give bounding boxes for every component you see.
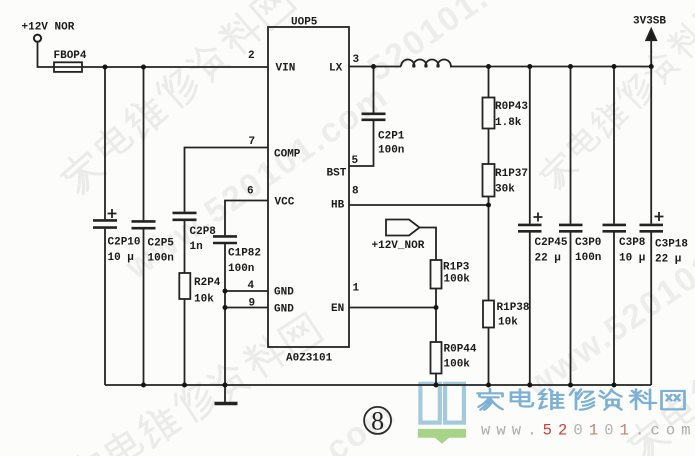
svg-text:R0P43: R0P43 [495, 101, 528, 113]
svg-text:7: 7 [249, 136, 256, 148]
wire C2P10 branch [104, 67, 106, 385]
resistor R0P44 [431, 342, 442, 374]
wire inductor to 3V3SB rail [450, 66, 651, 68]
net tag +12V_NOR [386, 220, 420, 236]
svg-text:C2P5: C2P5 [148, 238, 175, 250]
ground bus wire [105, 384, 651, 386]
svg-text:100n: 100n [148, 253, 174, 265]
inductor L [401, 59, 451, 66]
wire C3P18 branch [650, 67, 652, 386]
wire LX to C2P1 [373, 67, 375, 113]
fuse FBOP4 [54, 62, 82, 72]
svg-text:100k: 100k [444, 274, 471, 286]
wire R0P44 to bus [435, 374, 437, 386]
node VIN/C2P5 [141, 65, 146, 70]
svg-text:C2P10: C2P10 [108, 237, 141, 249]
svg-text:3: 3 [353, 54, 360, 66]
svg-text:9: 9 [249, 298, 256, 310]
svg-text:VIN: VIN [276, 63, 296, 75]
svg-text:C2P45: C2P45 [535, 237, 568, 249]
wire R0P43 to R1P37 [488, 129, 490, 165]
wire EN pin 1 [349, 307, 436, 309]
wire EN node to R0P44 [435, 308, 437, 343]
svg-text:100n: 100n [378, 145, 404, 157]
svg-text:3V3SB: 3V3SB [633, 16, 666, 28]
svg-text:4: 4 [248, 280, 255, 292]
ground symbol [215, 385, 238, 404]
svg-text:2: 2 [248, 50, 255, 62]
svg-text:EN: EN [331, 303, 344, 315]
wire R1P3 to EN node [435, 289, 437, 308]
svg-text:+12V_NOR: +12V_NOR [372, 240, 425, 252]
svg-text:UOP5: UOP5 [291, 17, 318, 29]
svg-text:R1P3: R1P3 [443, 262, 470, 274]
svg-text:C2P8: C2P8 [190, 226, 217, 238]
wire R1P38 to bus [488, 328, 490, 386]
svg-text:10 μ: 10 μ [108, 252, 134, 264]
svg-text:C3P0: C3P0 [575, 237, 601, 249]
svg-text:HB: HB [331, 200, 345, 212]
svg-text:1n: 1n [190, 241, 203, 253]
node bus/C2P45 [527, 383, 532, 388]
node rail/C3P0 [568, 64, 573, 69]
node GND pin4 [223, 289, 228, 294]
node rail/C3P18 [649, 64, 654, 69]
svg-text:FBOP4: FBOP4 [54, 50, 87, 62]
wire C1P82 to GND pins and bus [224, 244, 226, 385]
wire C2P1 to BST pin 5 [349, 121, 374, 166]
wire R1P37 to HB node [488, 197, 490, 206]
wire C2P5 branch [143, 67, 145, 385]
svg-text:R0P44: R0P44 [444, 344, 477, 356]
wire GND pin 4 [225, 290, 268, 292]
capacitor C2P10 [93, 209, 117, 228]
wire R2P4 to ground bus [184, 299, 186, 385]
svg-text:C2P1: C2P1 [378, 131, 405, 143]
logo url [481, 422, 695, 440]
node GND pin9 [223, 305, 228, 310]
wire COMP pin 7 [185, 148, 269, 212]
wire C2P8 to R2P4 [184, 221, 186, 273]
node HB/R1P37/R1P38 [486, 203, 491, 208]
3V3SB arrow [646, 29, 656, 67]
node rail/C2P45 [527, 64, 532, 69]
svg-text:1: 1 [353, 283, 360, 295]
svg-text:1.8k: 1.8k [495, 117, 522, 129]
svg-text:100k: 100k [444, 359, 471, 371]
svg-text:VCC: VCC [275, 197, 295, 209]
wire C2P45 branch [529, 67, 531, 386]
node LX/C2P1 [371, 64, 376, 69]
wire LX pin 3 to inductor [349, 66, 401, 68]
node bus/C3P8 [612, 383, 617, 388]
capacitor C3P0 [559, 225, 583, 231]
capacitor C2P8 [173, 213, 197, 220]
terminal +12V NOR [34, 35, 41, 42]
svg-text:BST: BST [327, 168, 347, 180]
capacitor C2P45 [518, 213, 543, 232]
wire tag to R1P3 [420, 228, 437, 261]
svg-text:GND: GND [274, 287, 294, 299]
svg-text:A0Z3101: A0Z3101 [286, 353, 333, 365]
page number 8 circled [364, 407, 391, 436]
wire rail to R0P43 [488, 67, 490, 98]
resistor R1P3 [431, 260, 442, 289]
node bus/R0P44 [434, 383, 439, 388]
svg-text:LX: LX [329, 62, 343, 74]
logo wordmark [478, 389, 685, 410]
svg-text:10k: 10k [498, 317, 518, 329]
node bus/R1P38 [486, 383, 491, 388]
wire FBOP4 to VIN pin 2 [82, 66, 268, 68]
node rail/R0P43 [486, 64, 491, 69]
capacitor C1P82 [213, 236, 237, 243]
svg-text:COMP: COMP [274, 149, 301, 161]
svg-text:8: 8 [352, 186, 359, 198]
node bus/C1P82 [223, 383, 228, 388]
wire GND pin 9 [225, 307, 268, 309]
wire VCC pin 6 [225, 201, 268, 236]
svg-text:22 μ: 22 μ [535, 253, 561, 265]
svg-text:22 μ: 22 μ [655, 254, 681, 266]
svg-text:+12V NOR: +12V NOR [22, 22, 75, 34]
capacitor C3P8 [603, 225, 627, 231]
svg-text:GND: GND [274, 304, 294, 316]
svg-text:100n: 100n [575, 252, 601, 264]
svg-text:www.520101.com: www.520101.com [481, 422, 695, 440]
wire terminal to FBOP4 [38, 42, 55, 67]
node bus/C3P0 [568, 383, 573, 388]
node EN/R1P3/R0P44 [434, 305, 439, 310]
node bus/C2P5 [141, 383, 146, 388]
svg-text:C1P82: C1P82 [228, 248, 261, 260]
svg-text:10 μ: 10 μ [619, 253, 645, 265]
IC U0P5 AOZ3101 body [268, 27, 349, 347]
resistor R0P43 [483, 98, 495, 129]
node rail/C3P8 [612, 64, 617, 69]
svg-text:R1P37: R1P37 [495, 168, 528, 180]
logo book icon [418, 384, 466, 444]
resistor R2P4 [179, 273, 190, 299]
resistor R1P37 [483, 164, 495, 197]
capacitor C2P1 [362, 114, 386, 120]
wire C3P8 branch [613, 67, 615, 386]
svg-text:C3P18: C3P18 [655, 239, 688, 251]
svg-text:8: 8 [371, 407, 384, 436]
svg-text:C3P8: C3P8 [619, 237, 646, 249]
svg-text:R1P38: R1P38 [497, 302, 530, 314]
svg-text:10k: 10k [194, 294, 214, 306]
svg-text:R2P4: R2P4 [194, 277, 221, 289]
node bus/R2P4 [182, 383, 187, 388]
svg-text:100n: 100n [228, 263, 254, 275]
svg-text:6: 6 [247, 186, 254, 198]
wire C3P0 branch [570, 67, 572, 386]
capacitor C2P5 [132, 221, 156, 228]
wire HB pin 8 [349, 204, 489, 206]
wire HB node to R1P38 [488, 205, 490, 301]
resistor R1P38 [483, 301, 494, 328]
capacitor C3P18 [640, 212, 664, 231]
svg-text:5: 5 [352, 155, 359, 167]
svg-text:30k: 30k [495, 184, 515, 196]
node VIN/C2P10 [103, 65, 108, 70]
